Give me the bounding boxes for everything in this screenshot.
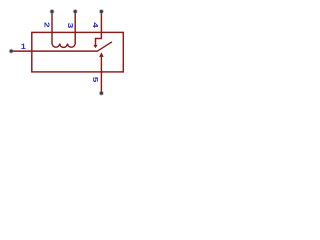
svg-text:1: 1 (21, 42, 26, 52)
svg-text:5: 5 (90, 77, 99, 83)
svg-text:3: 3 (65, 22, 74, 28)
svg-text:2: 2 (42, 22, 51, 28)
svg-text:4: 4 (91, 22, 100, 29)
